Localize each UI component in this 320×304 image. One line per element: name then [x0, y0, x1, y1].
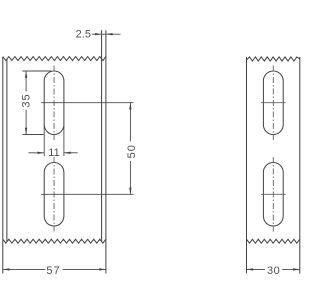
dimension 50 line lower part [129, 161, 131, 194]
dimension 35 line upper part [25, 71, 27, 91]
left plate outer right edge [105, 30, 107, 273]
svg-text:57: 57 [46, 265, 60, 277]
dimension 11 right tail line [64, 152, 78, 154]
arrowhead 30 right (points right) [293, 268, 300, 270]
lower left slot horizontal centerline / 50-dim bottom extension [41, 193, 134, 195]
left plate bottom break line (zigzag) [3, 239, 106, 243]
dimension 11 left tail line [29, 152, 45, 154]
slot left side extension line for 11-dim [43, 125, 45, 156]
arrowhead 57 left (points left) [3, 268, 10, 270]
dimension 35 top extension line [22, 70, 51, 72]
left plate inner left bend line [6, 60, 8, 242]
arrowhead 2.5 right (points left, tip at outer edge) [106, 33, 113, 35]
right plate left edge [246, 57, 248, 274]
upper left slot vertical centerline [53, 66, 55, 141]
svg-text:2.5: 2.5 [76, 29, 91, 41]
dimension 30 line right part [282, 268, 300, 270]
dimension 50 line upper part [129, 103, 131, 142]
left plate inner right bend line (2.5 offset) [101, 30, 103, 241]
arrowhead 35 bottom (points down) [25, 128, 27, 135]
arrowhead 50 bottom (points down) [129, 188, 131, 195]
svg-text:35: 35 [21, 93, 33, 107]
dimension 57 line right part [63, 268, 106, 270]
slot right side extension line for 11-dim [63, 125, 65, 156]
upper right slot horizontal centerline [261, 102, 286, 104]
lower right slot vertical centerline [272, 157, 274, 232]
arrowhead 2.5 left (points right, tip at inner line) [95, 33, 102, 35]
svg-text:30: 30 [267, 265, 280, 277]
dimension 30 line left part [247, 268, 266, 270]
left plate upper slot (obround hole) [44, 71, 64, 135]
left plate lower slot (obround hole) [44, 163, 64, 226]
arrowhead 57 right (points right) [99, 268, 106, 270]
svg-text:11: 11 [48, 147, 59, 159]
arrowhead 11 left (points right) [38, 152, 45, 154]
right plate lower slot (obround hole) [263, 162, 283, 226]
upper right slot vertical centerline [272, 66, 274, 141]
dimension 35 line lower part [25, 110, 27, 135]
arrowhead 11 right (points left) [64, 152, 71, 154]
lower left slot vertical centerline [53, 157, 55, 232]
arrowhead 50 top (points up) [129, 103, 131, 110]
dimension 2.5 line [92, 33, 121, 35]
dimension 35 bottom extension line [22, 134, 43, 136]
arrowhead 30 left (points left) [247, 268, 254, 270]
right plate upper slot (obround hole) [263, 71, 283, 135]
arrowhead 35 top (points up) [25, 71, 27, 78]
dimension 57 line left part [3, 268, 46, 270]
right plate right edge [299, 57, 301, 274]
right plate top break line (zigzag) [247, 57, 300, 61]
left plate top break line (zigzag) [3, 57, 106, 61]
lower right slot horizontal centerline [261, 193, 286, 195]
upper left slot horizontal centerline / 50-dim top extension [41, 102, 134, 104]
right plate bottom break line (zigzag) [247, 239, 300, 243]
svg-text:50: 50 [126, 144, 138, 158]
left plate outer left edge [2, 57, 4, 274]
